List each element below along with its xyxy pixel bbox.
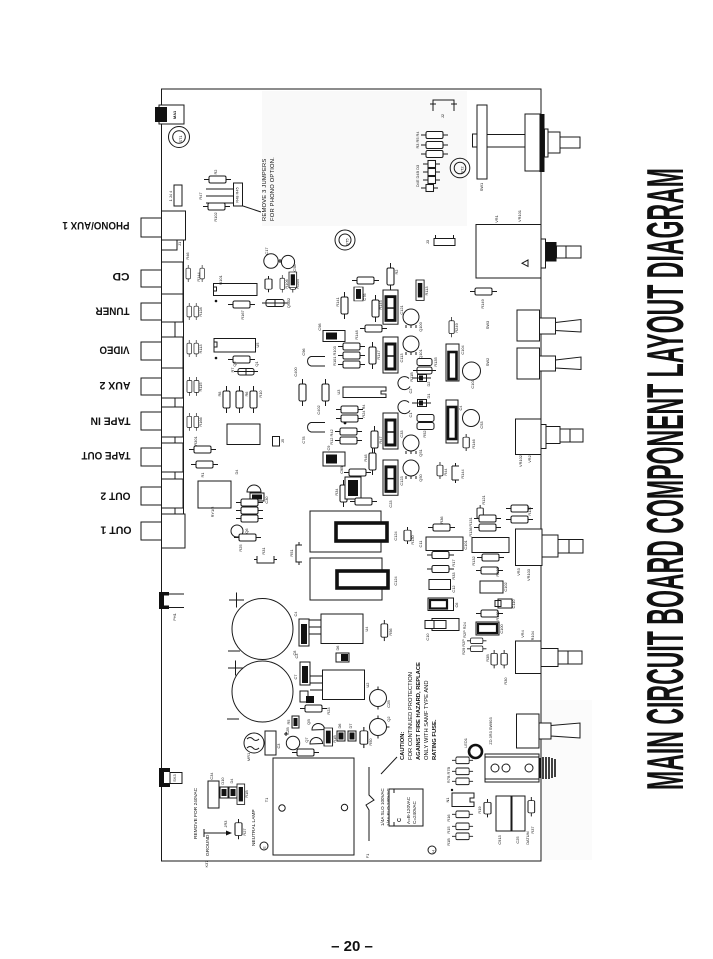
cap C400 bbox=[299, 379, 306, 406]
resistor R144b bracket bbox=[452, 463, 459, 483]
transformer T1 bbox=[273, 758, 354, 855]
resistor R29 pair bbox=[467, 638, 486, 644]
resistor R10b bbox=[324, 728, 333, 746]
svg-text:C25: C25 bbox=[515, 836, 520, 843]
cap C58 bbox=[281, 255, 294, 268]
cap C9c bbox=[345, 477, 361, 499]
svg-text:AUX 2: AUX 2 bbox=[100, 379, 131, 391]
svg-text:VIDEO: VIDEO bbox=[99, 344, 129, 356]
svg-text:C123: C123 bbox=[399, 476, 404, 485]
transistor Q6 bbox=[231, 525, 243, 537]
svg-text:C10: C10 bbox=[425, 633, 430, 641]
svg-text:R102: R102 bbox=[213, 212, 218, 221]
transistor Q12 bbox=[370, 690, 387, 707]
trimmer C122 bbox=[383, 460, 398, 495]
resistor R24 bbox=[336, 406, 363, 413]
transistor Q7 dome bbox=[310, 737, 323, 744]
svg-text:C102: C102 bbox=[503, 582, 508, 591]
diode D5 dome bbox=[247, 485, 261, 492]
resistor R101 bbox=[338, 352, 365, 359]
cap C100 bbox=[476, 622, 499, 635]
resistor R137 bbox=[506, 505, 533, 512]
switch SW3 cone bbox=[556, 320, 582, 333]
svg-text:R7B R7B: R7B R7B bbox=[446, 766, 451, 783]
resistor R8 bbox=[223, 386, 230, 413]
svg-text:J3: J3 bbox=[425, 240, 430, 244]
dot bbox=[344, 422, 347, 425]
svg-text:C6: C6 bbox=[454, 603, 459, 608]
resistor R149v bbox=[449, 317, 454, 337]
resistor R136 bbox=[474, 524, 501, 531]
svg-text:C17: C17 bbox=[264, 247, 269, 254]
cap C98 bbox=[323, 331, 345, 342]
svg-text:R52: R52 bbox=[422, 430, 427, 437]
svg-text:R133: R133 bbox=[495, 567, 500, 576]
resistor R121 bbox=[477, 505, 483, 521]
svg-text:R36: R36 bbox=[439, 516, 444, 523]
svg-text:VR2: VR2 bbox=[527, 455, 532, 463]
svg-text:R144: R144 bbox=[196, 272, 201, 282]
svg-text:R135: R135 bbox=[433, 357, 438, 366]
resistor R5 bbox=[421, 151, 448, 158]
cap C11 bbox=[426, 537, 463, 551]
svg-text:C1: C1 bbox=[408, 413, 413, 418]
resistor R113b bbox=[416, 280, 424, 300]
relay K1 bbox=[227, 424, 260, 445]
resistor R14 bbox=[452, 833, 473, 840]
svg-text:D4: D4 bbox=[229, 778, 234, 784]
svg-text:U101: U101 bbox=[218, 275, 223, 284]
svg-text:Q2: Q2 bbox=[386, 716, 391, 721]
jack VIDEO plug bbox=[141, 342, 162, 360]
svg-text:FOR CONTINUED PROTECTION: FOR CONTINUED PROTECTION bbox=[408, 672, 414, 760]
voltage selector bbox=[389, 789, 423, 826]
resistor R25 bbox=[234, 534, 261, 541]
cap C1b bbox=[265, 731, 276, 755]
resistor R56 bbox=[381, 620, 388, 641]
svg-text:C96: C96 bbox=[301, 348, 306, 355]
svg-text:D6: D6 bbox=[335, 646, 340, 651]
switch SW1 shaft bar bbox=[487, 135, 525, 148]
resistor R35 bbox=[352, 277, 379, 284]
resistor R42 bbox=[335, 437, 362, 444]
trimmer C121 bbox=[383, 290, 398, 324]
pot VR1 shaft bbox=[557, 246, 582, 258]
trimmer C33 bbox=[383, 413, 398, 449]
pot VR1 black shaft bbox=[546, 242, 557, 262]
svg-text:R136: R136 bbox=[468, 527, 473, 536]
resistor R39 bbox=[501, 650, 507, 668]
diode D4b bbox=[229, 787, 237, 798]
jack OUT2 plug bbox=[141, 487, 162, 505]
resistor R38 bbox=[491, 650, 497, 668]
svg-text:R33: R33 bbox=[451, 572, 456, 579]
resistor R18 bbox=[237, 784, 245, 804]
svg-text:CAUTION:: CAUTION: bbox=[400, 732, 406, 760]
svg-text:C2B: C2B bbox=[386, 700, 391, 708]
svg-text:VR102: VR102 bbox=[518, 455, 523, 467]
svg-text:R48 R45: R48 R45 bbox=[235, 187, 240, 202]
svg-text:R1B: R1B bbox=[446, 838, 451, 846]
pot VR3 shaft bbox=[542, 535, 558, 557]
cap C125 bar bbox=[337, 571, 388, 588]
svg-text:R148: R148 bbox=[354, 330, 359, 339]
plus mark C7 bbox=[228, 661, 243, 676]
svg-text:C9: C9 bbox=[326, 446, 331, 451]
svg-text:R121: R121 bbox=[481, 495, 486, 504]
cap C1 open bbox=[398, 401, 410, 414]
svg-text:Q7: Q7 bbox=[304, 737, 309, 742]
svg-text:MAIN CIRCUIT BOARD COMPONENT L: MAIN CIRCUIT BOARD COMPONENT LAYOUT DIAG… bbox=[636, 168, 694, 790]
svg-text:TAPE IN: TAPE IN bbox=[90, 415, 130, 427]
svg-text:R132: R132 bbox=[471, 556, 476, 565]
svg-text:JR3: JR3 bbox=[223, 821, 228, 828]
jack column step c bbox=[162, 437, 176, 443]
resistor pair R113 bbox=[187, 340, 198, 357]
transistor Q8 dome bbox=[312, 723, 325, 730]
jack TAPE IN plug bbox=[141, 412, 162, 430]
svg-text:1 J4 4: 1 J4 4 bbox=[168, 190, 173, 201]
svg-text:T1: T1 bbox=[264, 798, 269, 803]
svg-text:REMOVE FOR 240VAC: REMOVE FOR 240VAC bbox=[193, 787, 199, 839]
svg-text:A=B-120VAC: A=B-120VAC bbox=[406, 796, 411, 824]
connector MA1 bbox=[159, 105, 184, 124]
svg-text:C124: C124 bbox=[393, 531, 398, 541]
cap C4r bbox=[446, 400, 458, 443]
switch SW3 bushing bbox=[540, 318, 556, 334]
jack TAPE OUT plug bbox=[141, 448, 162, 466]
resistor R44 bbox=[437, 462, 443, 479]
jumper C78 bbox=[308, 423, 325, 433]
svg-text:R128: R128 bbox=[198, 307, 203, 316]
cap C124 outer bbox=[310, 511, 381, 552]
cap C34 bbox=[208, 781, 219, 808]
cap C8 bbox=[232, 599, 293, 660]
svg-text:SW3: SW3 bbox=[485, 321, 490, 329]
svg-text:ST1: ST1 bbox=[178, 135, 183, 142]
svg-text:R166: R166 bbox=[198, 417, 203, 426]
svg-text:C11: C11 bbox=[418, 541, 423, 548]
jack AUX2 body bbox=[162, 368, 184, 398]
cap C913 bbox=[496, 796, 511, 831]
resistor R51 bracket bbox=[296, 542, 302, 565]
cap C5l bbox=[300, 691, 308, 702]
svg-text:U5: U5 bbox=[255, 343, 260, 348]
jack column step d bbox=[162, 472, 176, 479]
switch SW1 black strip bbox=[540, 114, 545, 172]
svg-text:Q50: Q50 bbox=[418, 473, 423, 481]
svg-text:C=240VAC: C=240VAC bbox=[412, 801, 417, 824]
resistor R52 bbox=[417, 415, 434, 422]
resistor pair R144 bbox=[186, 265, 204, 282]
jack column step b bbox=[162, 398, 176, 407]
svg-text:R24 R4: R24 R4 bbox=[361, 404, 366, 418]
svg-text:C2B: C2B bbox=[285, 727, 290, 735]
svg-text:D4: D4 bbox=[234, 469, 239, 475]
jack VIDEO body bbox=[162, 337, 184, 368]
cap C12 bbox=[429, 580, 451, 590]
svg-text:LED1: LED1 bbox=[463, 738, 468, 748]
cap C2 open bbox=[398, 377, 410, 390]
dot bbox=[451, 789, 453, 791]
svg-text:OUT 1: OUT 1 bbox=[101, 524, 132, 536]
switch SW1 knob bbox=[525, 114, 541, 171]
svg-text:R19: R19 bbox=[477, 806, 482, 813]
switch SW1 bushing bbox=[545, 129, 549, 157]
jack PHONO/AUX1 step J1 bbox=[162, 240, 178, 250]
resistor R45b bbox=[344, 469, 371, 476]
svg-text:N1: N1 bbox=[445, 798, 450, 803]
svg-text:R48: R48 bbox=[363, 454, 368, 461]
resistor R66 bbox=[289, 272, 297, 288]
resistor R5 bbox=[292, 716, 299, 728]
svg-text:C2: C2 bbox=[408, 389, 413, 394]
diode D6 bbox=[336, 653, 349, 662]
pot VR2 bushing bbox=[541, 425, 546, 449]
resistor R103 bbox=[338, 361, 365, 368]
svg-text:R11B: R11B bbox=[409, 372, 414, 382]
switch SW2 body bbox=[517, 348, 540, 379]
svg-text:R29 R2P: R29 R2P bbox=[461, 639, 466, 655]
cap C30 bbox=[250, 493, 264, 501]
resistor R7C bbox=[452, 768, 473, 775]
resistor R34 bbox=[340, 480, 347, 507]
svg-text:R139: R139 bbox=[495, 611, 500, 620]
resistor R117 bbox=[506, 516, 533, 523]
resistor R145 bbox=[372, 295, 379, 322]
pot VR2 shaft bbox=[546, 427, 560, 444]
diode D19 bbox=[423, 161, 440, 168]
connector PH1 bbox=[159, 592, 169, 609]
resistor R301 bbox=[189, 446, 216, 453]
svg-text:R130: R130 bbox=[410, 535, 415, 545]
svg-text:R25: R25 bbox=[238, 544, 243, 551]
resistor R143 bbox=[338, 343, 365, 350]
relay RY1/2 bbox=[198, 481, 231, 508]
svg-text:ST2: ST2 bbox=[460, 166, 465, 173]
svg-text:E: E bbox=[262, 846, 267, 849]
svg-text:J5: J5 bbox=[280, 439, 285, 443]
svg-text:PH1: PH1 bbox=[172, 613, 177, 621]
resistor R108 bbox=[290, 275, 296, 293]
resistor pair R116 bbox=[187, 413, 199, 431]
jack PHONO/AUX1 body bbox=[162, 211, 186, 240]
cap C25 bbox=[512, 796, 525, 831]
svg-text:C30: C30 bbox=[264, 496, 269, 504]
diode D2 bbox=[418, 375, 427, 382]
svg-text:C101: C101 bbox=[463, 540, 468, 549]
resistor R15 bbox=[452, 823, 473, 830]
svg-text:R17: R17 bbox=[451, 559, 456, 566]
svg-text:C4: C4 bbox=[293, 611, 298, 617]
jack CD body bbox=[162, 262, 184, 294]
svg-text:TAPE OUT: TAPE OUT bbox=[81, 449, 130, 461]
svg-text:C53: C53 bbox=[479, 421, 484, 428]
svg-text:R30: R30 bbox=[503, 677, 508, 685]
svg-text:D1: D1 bbox=[426, 394, 431, 399]
resistor R106 bbox=[280, 275, 285, 293]
svg-text:R8: R8 bbox=[217, 392, 222, 397]
resistor R50 bbox=[360, 727, 368, 748]
transistor Q101 bbox=[403, 336, 419, 355]
resistor R102 bbox=[203, 203, 230, 210]
svg-text:C121: C121 bbox=[399, 305, 404, 314]
resistor R27 bbox=[235, 819, 242, 839]
switch SW1 shaft bbox=[548, 132, 560, 153]
svg-text:R46: R46 bbox=[185, 252, 190, 259]
resistor R147 bbox=[369, 342, 376, 369]
jack column step e bbox=[162, 508, 176, 514]
jack column step a bbox=[162, 322, 176, 337]
screw H bbox=[428, 846, 436, 854]
AC receptacle bbox=[485, 754, 539, 782]
pot VR4 body bbox=[516, 641, 542, 674]
svg-text:Q2: Q2 bbox=[232, 361, 237, 366]
resistor R133 bbox=[476, 567, 503, 574]
svg-text:R115: R115 bbox=[198, 382, 203, 391]
transistor Q50 bbox=[403, 460, 419, 479]
minus mark C7 bbox=[227, 718, 239, 720]
svg-text:1/4A SLO 100VAC: 1/4A SLO 100VAC bbox=[380, 788, 385, 826]
inner jack column line bbox=[183, 211, 185, 548]
svg-text:C9B: C9B bbox=[339, 466, 344, 474]
connector J1 bbox=[174, 185, 182, 206]
resistor R19b bbox=[484, 799, 491, 817]
resistor stack R20 bbox=[236, 507, 263, 514]
resistor R33 bbox=[427, 566, 454, 573]
resistor pair R115 bbox=[187, 377, 199, 396]
caution leader bbox=[381, 757, 397, 774]
resistor R149 bbox=[470, 288, 497, 295]
svg-text:PHONO/AUX 1: PHONO/AUX 1 bbox=[63, 219, 130, 231]
connector J2 bbox=[433, 100, 454, 111]
diode D1 bbox=[418, 400, 427, 407]
svg-text:R27: R27 bbox=[242, 828, 247, 835]
switch SW1 plate bbox=[477, 105, 487, 179]
svg-text:R3 R5 R4: R3 R5 R4 bbox=[415, 131, 420, 149]
cap C28 bbox=[286, 736, 299, 749]
svg-text:RY1/2: RY1/2 bbox=[210, 507, 215, 518]
svg-text:R147: R147 bbox=[376, 350, 381, 359]
test point ST1 bbox=[169, 127, 190, 148]
pot VR4 shaft bbox=[541, 649, 558, 667]
svg-text:AGAINST FIRE HAZARD, REPLACE: AGAINST FIRE HAZARD, REPLACE bbox=[416, 662, 422, 760]
svg-text:R2P R24: R2P R24 bbox=[462, 621, 467, 638]
svg-text:SW1: SW1 bbox=[479, 183, 484, 191]
cap C10 bbox=[432, 619, 459, 631]
resistor R36 bbox=[428, 524, 455, 531]
cap C4l bbox=[299, 619, 309, 646]
resistor R139 bbox=[476, 610, 503, 617]
svg-text:QN02: QN02 bbox=[286, 298, 291, 308]
svg-text:R34: R34 bbox=[334, 488, 339, 496]
svg-text:QB: QB bbox=[306, 719, 311, 725]
svg-text:R23: R23 bbox=[326, 707, 331, 714]
switch SW903 bushing bbox=[539, 723, 551, 739]
resistor R146 bbox=[463, 434, 469, 451]
switch SW2 cone bbox=[556, 357, 582, 370]
resistor R7 bbox=[228, 356, 255, 363]
resistor stack R21 bbox=[236, 515, 263, 522]
IC U4 bbox=[321, 614, 363, 644]
svg-text:Q101: Q101 bbox=[418, 349, 423, 359]
jack TAPE IN body bbox=[162, 407, 184, 437]
IC U5 bbox=[214, 339, 256, 353]
resistor R148 bbox=[360, 325, 387, 332]
resistor R7D bbox=[452, 778, 473, 785]
cap C124 bar bbox=[336, 523, 387, 541]
svg-text:J2: J2 bbox=[440, 114, 445, 118]
svg-text:C34: C34 bbox=[209, 772, 214, 780]
svg-text:Q51: Q51 bbox=[418, 449, 423, 456]
board outline bbox=[162, 89, 542, 861]
jack OUT1 plug bbox=[141, 522, 162, 540]
diode D45 bbox=[421, 185, 438, 192]
minus mark C8 bbox=[228, 650, 240, 652]
svg-text:C110: C110 bbox=[511, 599, 516, 609]
connector J3 bbox=[434, 239, 455, 246]
svg-text:Q1: Q1 bbox=[254, 361, 259, 366]
AC cord ribs bbox=[540, 757, 555, 779]
jack AUX2 plug bbox=[141, 378, 162, 395]
cap C125 outer bbox=[310, 558, 382, 600]
svg-text:C33: C33 bbox=[399, 430, 404, 437]
svg-text:FOR PHONO OPTION.: FOR PHONO OPTION. bbox=[270, 157, 276, 221]
svg-text:R1: R1 bbox=[200, 473, 205, 478]
IC U3 bbox=[343, 387, 386, 398]
svg-text:R10: R10 bbox=[258, 390, 263, 398]
dot bbox=[215, 300, 218, 303]
svg-text:RATING FUSE.: RATING FUSE. bbox=[432, 719, 438, 760]
resistor R12 bbox=[335, 428, 362, 435]
plus mark C8 bbox=[229, 593, 244, 608]
dot bbox=[215, 357, 218, 360]
resistor pair R128 bbox=[187, 303, 198, 320]
resistor R4 bbox=[421, 132, 448, 139]
svg-text:R167: R167 bbox=[240, 310, 245, 319]
resistor R7B bbox=[452, 757, 473, 764]
svg-text:REMOVE 3 JUMPERS: REMOVE 3 JUMPERS bbox=[262, 159, 268, 221]
svg-text:C: C bbox=[397, 818, 403, 822]
resistor R132 bbox=[477, 554, 504, 561]
jack PHONO/AUX1 plug bbox=[141, 218, 162, 237]
resistor R37 bbox=[528, 797, 535, 816]
svg-text:C100: C100 bbox=[499, 624, 504, 634]
svg-text:NEUTRAL LAMP: NEUTRAL LAMP bbox=[251, 809, 257, 846]
svg-text:C3: C3 bbox=[276, 744, 281, 749]
svg-text:R1B: R1B bbox=[244, 790, 249, 798]
svg-text:C23: C23 bbox=[388, 500, 393, 507]
resistor R17 bbox=[427, 552, 454, 559]
svg-text:VR103: VR103 bbox=[526, 569, 531, 581]
cap C402 bbox=[322, 379, 329, 406]
svg-text:TUNER: TUNER bbox=[95, 305, 129, 317]
resistor R23 bbox=[300, 705, 327, 712]
resistor R122 bbox=[350, 498, 377, 505]
svg-text:H: H bbox=[431, 850, 436, 853]
svg-text:C104: C104 bbox=[460, 345, 465, 355]
test point ST2 bbox=[450, 158, 470, 178]
svg-text:R5: R5 bbox=[286, 720, 291, 725]
transistor Q27 bbox=[370, 719, 387, 736]
svg-text:R6: R6 bbox=[244, 392, 249, 397]
transistor C103 bbox=[463, 362, 481, 380]
jack TUNER body bbox=[162, 294, 184, 322]
svg-text:J1: J1 bbox=[177, 242, 182, 246]
resistor R31 bracket bbox=[254, 556, 277, 563]
leader line phono note bbox=[243, 206, 261, 212]
svg-text:C98: C98 bbox=[317, 323, 322, 330]
